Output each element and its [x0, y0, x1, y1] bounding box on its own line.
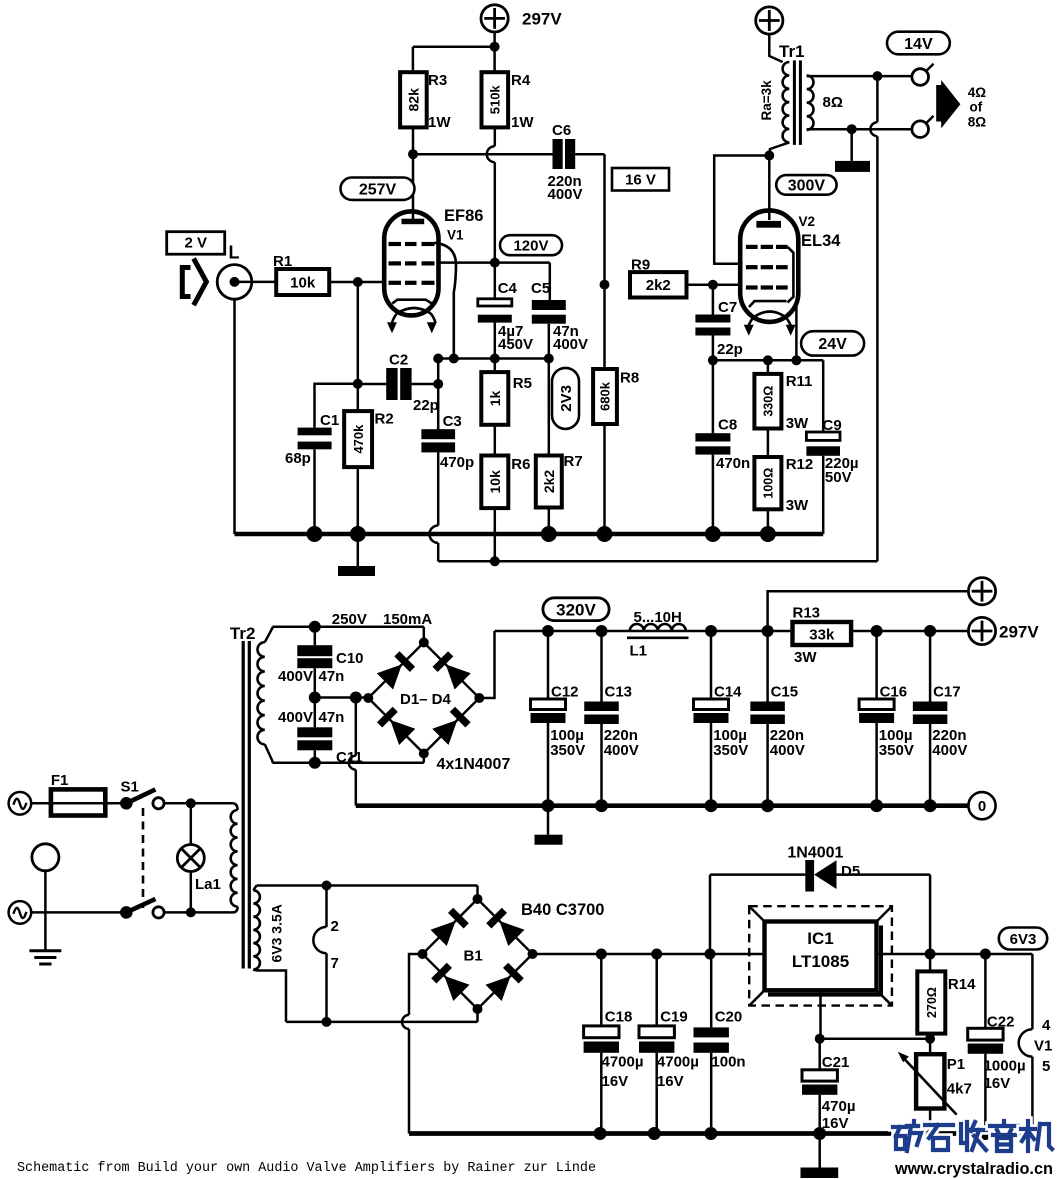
svg-text:50V: 50V [825, 469, 852, 486]
svg-text:22p: 22p [413, 397, 439, 414]
svg-text:R3: R3 [428, 72, 447, 89]
svg-text:2 V: 2 V [184, 235, 207, 252]
svg-text:C9: C9 [823, 417, 842, 434]
svg-text:LT1085: LT1085 [792, 952, 849, 971]
svg-text:C13: C13 [605, 684, 633, 701]
svg-text:6V3: 6V3 [1010, 931, 1037, 948]
svg-text:C3: C3 [443, 413, 462, 430]
svg-text:C7: C7 [718, 299, 737, 316]
svg-text:R4: R4 [511, 72, 531, 89]
svg-text:C4: C4 [498, 280, 518, 297]
svg-text:C17: C17 [933, 684, 961, 701]
svg-text:R9: R9 [631, 257, 650, 274]
svg-text:16V: 16V [602, 1073, 629, 1090]
svg-text:4Ω: 4Ω [968, 85, 987, 100]
svg-text:16V: 16V [984, 1075, 1011, 1092]
svg-text:400V: 400V [932, 742, 967, 759]
svg-text:IC1: IC1 [807, 929, 833, 948]
svg-text:2k2: 2k2 [646, 277, 671, 294]
svg-text:C14: C14 [714, 684, 742, 701]
svg-text:33k: 33k [809, 627, 835, 644]
svg-text:C15: C15 [771, 684, 799, 701]
svg-text:4k7: 4k7 [947, 1081, 972, 1098]
svg-text:16V: 16V [657, 1073, 684, 1090]
svg-text:16 V: 16 V [625, 172, 656, 189]
svg-text:EF86: EF86 [444, 207, 483, 225]
svg-text:250V: 250V [332, 611, 367, 628]
svg-text:1W: 1W [428, 114, 451, 131]
svg-text:3W: 3W [786, 415, 809, 432]
svg-text:5...10H: 5...10H [634, 609, 682, 626]
svg-text:300V: 300V [788, 178, 826, 195]
svg-text:450V: 450V [498, 336, 533, 353]
svg-text:V2: V2 [799, 214, 816, 229]
svg-text:8Ω: 8Ω [823, 94, 843, 111]
svg-text:400V: 400V [604, 742, 639, 759]
svg-text:Ra=3k: Ra=3k [759, 80, 774, 121]
svg-text:C18: C18 [605, 1009, 633, 1026]
svg-text:0: 0 [978, 798, 986, 815]
svg-text:320V: 320V [556, 600, 596, 619]
svg-text:C2: C2 [389, 352, 408, 369]
svg-text:257V: 257V [359, 181, 397, 198]
svg-text:V1: V1 [447, 228, 464, 243]
svg-text:C21: C21 [822, 1054, 850, 1071]
svg-text:3W: 3W [786, 497, 809, 514]
svg-text:R8: R8 [620, 370, 639, 387]
svg-text:1k: 1k [487, 390, 503, 406]
svg-text:330Ω: 330Ω [761, 386, 775, 417]
svg-text:120V: 120V [513, 238, 548, 255]
svg-text:400V: 400V [770, 742, 805, 759]
svg-text:R5: R5 [513, 375, 532, 392]
svg-text:R13: R13 [793, 605, 821, 622]
svg-text:4x1N4007: 4x1N4007 [437, 756, 511, 773]
svg-text:14V: 14V [904, 36, 933, 53]
svg-text:270Ω: 270Ω [925, 987, 939, 1018]
svg-text:4700µ: 4700µ [602, 1054, 644, 1071]
svg-text:400V: 400V [548, 186, 583, 203]
svg-text:La1: La1 [195, 876, 221, 893]
svg-text:400V: 400V [278, 668, 313, 685]
svg-text:2k2: 2k2 [541, 470, 557, 494]
svg-text:4: 4 [1042, 1017, 1051, 1034]
svg-text:7: 7 [331, 955, 339, 972]
svg-text:S1: S1 [121, 779, 139, 796]
svg-text:3W: 3W [794, 649, 817, 666]
svg-text:D5: D5 [841, 863, 860, 880]
svg-text:D1– D4: D1– D4 [400, 691, 452, 708]
svg-text:Schematic from Build your own: Schematic from Build your own Audio Valv… [17, 1161, 596, 1176]
svg-text:510k: 510k [487, 85, 502, 115]
svg-text:10k: 10k [487, 470, 503, 494]
svg-text:R1: R1 [273, 253, 292, 270]
svg-text:C20: C20 [715, 1009, 743, 1026]
svg-text:2: 2 [331, 918, 339, 935]
svg-text:350V: 350V [550, 742, 585, 759]
svg-text:C8: C8 [718, 417, 737, 434]
svg-text:100Ω: 100Ω [761, 468, 775, 499]
svg-text:2V3: 2V3 [558, 385, 575, 412]
svg-text:400V: 400V [278, 709, 313, 726]
svg-text:47n: 47n [319, 709, 345, 726]
svg-text:82k: 82k [405, 88, 421, 112]
svg-text:16V: 16V [822, 1115, 849, 1132]
svg-text:R12: R12 [786, 456, 814, 473]
svg-text:C1: C1 [320, 412, 339, 429]
svg-text:L1: L1 [630, 643, 648, 660]
svg-text:470n: 470n [716, 455, 750, 472]
svg-text:22p: 22p [717, 341, 743, 358]
svg-text:1W: 1W [511, 114, 534, 131]
svg-text:Tr2: Tr2 [230, 624, 256, 643]
svg-text:R2: R2 [375, 411, 394, 428]
svg-text:V1: V1 [1034, 1038, 1052, 1055]
svg-text:8Ω: 8Ω [968, 115, 987, 130]
svg-text:C10: C10 [336, 650, 364, 667]
svg-text:C6: C6 [552, 122, 571, 139]
svg-text:5: 5 [1042, 1058, 1050, 1075]
svg-text:R14: R14 [948, 976, 976, 993]
svg-text:1N4001: 1N4001 [787, 845, 843, 862]
svg-text:C5: C5 [531, 280, 550, 297]
svg-text:297V: 297V [999, 623, 1039, 642]
svg-text:1000µ: 1000µ [984, 1058, 1026, 1075]
svg-text:C12: C12 [551, 684, 579, 701]
svg-text:10k: 10k [290, 274, 316, 291]
svg-text:4700µ: 4700µ [657, 1054, 699, 1071]
svg-text:B1: B1 [464, 948, 483, 965]
svg-text:R6: R6 [511, 456, 530, 473]
svg-text:100n: 100n [711, 1054, 745, 1071]
svg-text:R11: R11 [786, 373, 813, 390]
svg-text:350V: 350V [713, 742, 748, 759]
svg-text:C22: C22 [987, 1014, 1015, 1031]
svg-text:R7: R7 [564, 453, 583, 470]
svg-text:www.crystalradio.cn: www.crystalradio.cn [894, 1159, 1053, 1178]
svg-text:470µ: 470µ [822, 1098, 856, 1115]
svg-text:of: of [970, 100, 983, 115]
svg-text:470p: 470p [440, 454, 474, 471]
svg-text:47n: 47n [319, 668, 345, 685]
svg-text:C19: C19 [660, 1009, 688, 1026]
svg-text:24V: 24V [818, 336, 847, 353]
svg-text:68p: 68p [285, 450, 311, 467]
svg-text:P1: P1 [947, 1056, 965, 1073]
svg-text:350V: 350V [879, 742, 914, 759]
svg-text:EL34: EL34 [801, 232, 841, 250]
svg-text:Tr1: Tr1 [779, 42, 805, 61]
svg-text:400V: 400V [553, 336, 588, 353]
svg-text:470k: 470k [351, 424, 366, 454]
svg-text:680k: 680k [598, 381, 613, 411]
svg-text:297V: 297V [522, 10, 562, 29]
svg-text:L: L [229, 243, 240, 263]
svg-text:150mA: 150mA [383, 611, 432, 628]
svg-text:F1: F1 [51, 772, 69, 789]
svg-text:6V3 3.5A: 6V3 3.5A [269, 904, 285, 962]
svg-text:B40 C3700: B40 C3700 [521, 901, 604, 919]
svg-text:C16: C16 [880, 684, 908, 701]
